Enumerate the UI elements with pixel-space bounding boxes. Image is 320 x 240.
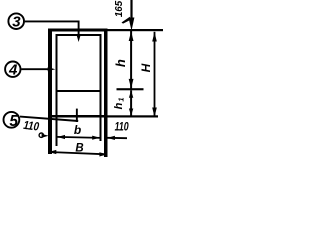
leader from balloon 5 (20, 117, 78, 121)
extension line V1 (outer left) (48, 118, 52, 155)
label h1 (113, 97, 126, 109)
svg-text:4: 4 (8, 61, 18, 78)
svg-text:110: 110 (23, 118, 40, 134)
leader from balloon 3 (25, 21, 81, 42)
balloon 3 (8, 13, 24, 30)
centerline tick (76, 109, 78, 122)
svg-text:h: h (113, 59, 128, 67)
dimension H line (152, 32, 157, 117)
svg-text:1: 1 (117, 97, 126, 101)
svg-text:b: b (74, 123, 81, 137)
svg-text:h: h (113, 102, 125, 109)
svg-text:165: 165 (113, 1, 125, 17)
dimension 165 line (122, 0, 135, 31)
middle right extension line (117, 88, 144, 90)
dimension B line (49, 150, 108, 157)
svg-text:5: 5 (9, 113, 18, 130)
leader from balloon 4 (21, 67, 55, 71)
inner screen rectangle (57, 35, 101, 91)
dimension 110 left line with curl (39, 133, 49, 138)
extension line V2 (inner left) (56, 92, 58, 146)
svg-text:H: H (139, 63, 153, 72)
dimension h line (129, 31, 134, 89)
extension line V4 (outer right) (104, 118, 108, 158)
extension line V3 (inner right) (100, 92, 102, 141)
dimension b / 110 row (57, 135, 128, 140)
top extension line (108, 29, 164, 31)
outer cabinet rectangle (48, 29, 108, 118)
svg-text:110: 110 (115, 122, 129, 134)
balloon 5 (3, 112, 19, 130)
bottom right extension line (108, 115, 159, 117)
balloon 4 (5, 61, 20, 78)
svg-text:3: 3 (12, 13, 21, 30)
dimension h1 line (129, 90, 133, 116)
